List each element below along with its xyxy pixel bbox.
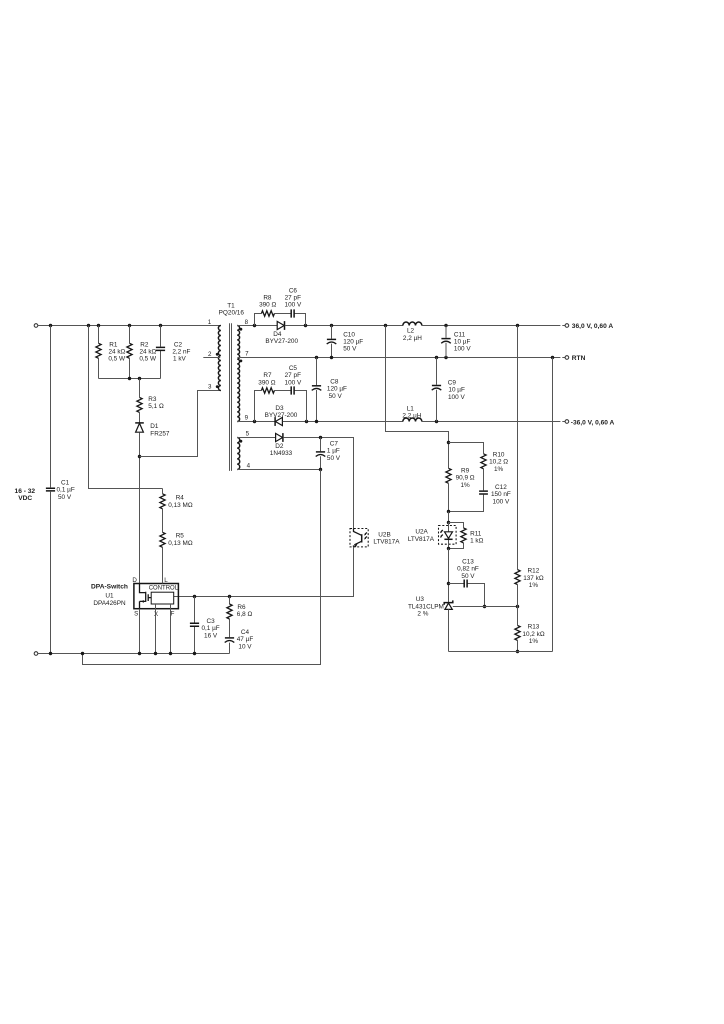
svg-text:50 V: 50 V xyxy=(327,455,341,462)
svg-text:10,2 Ω: 10,2 Ω xyxy=(489,459,508,466)
node top rail at C1 xyxy=(49,324,52,327)
svg-text:50 V: 50 V xyxy=(343,346,357,353)
node -36 at snubber right xyxy=(305,420,308,423)
output terminal -36 V xyxy=(565,419,614,426)
svg-text:0,1 µF: 0,1 µF xyxy=(201,625,219,632)
svg-text:9: 9 xyxy=(245,415,249,422)
resistor R12 xyxy=(515,568,544,590)
svg-text:2,2 µH: 2,2 µH xyxy=(402,412,421,419)
capacitor C11 xyxy=(441,326,471,358)
wire feedback return to RTN xyxy=(552,358,554,652)
diode D1 xyxy=(135,423,170,437)
svg-text:VDC: VDC xyxy=(18,495,32,502)
wire pin 8 to D4 xyxy=(237,325,277,327)
svg-text:3: 3 xyxy=(208,383,212,390)
capacitor C12 xyxy=(479,484,511,505)
svg-text:L2: L2 xyxy=(407,328,415,335)
transformer T1 bias winding (pins 5-4) xyxy=(237,438,240,470)
svg-text:R10: R10 xyxy=(493,451,505,458)
optocoupler U2B (photo-transistor) xyxy=(350,529,400,548)
svg-text:F: F xyxy=(171,611,175,618)
svg-text:50 V: 50 V xyxy=(58,494,72,501)
pin label 8 xyxy=(245,319,249,326)
svg-text:D3: D3 xyxy=(275,405,284,412)
svg-text:U1: U1 xyxy=(105,593,114,600)
svg-text:C5: C5 xyxy=(289,365,298,372)
svg-text:D1: D1 xyxy=(150,423,159,430)
svg-text:10 µF: 10 µF xyxy=(448,387,465,394)
diode D3 xyxy=(265,405,298,426)
node C line at R6 xyxy=(228,595,231,598)
svg-text:BYV27-200: BYV27-200 xyxy=(265,412,298,419)
pin label 5 xyxy=(246,431,250,438)
IC U1 DPA-Switch box xyxy=(134,584,179,609)
shunt regulator U3 TL431 xyxy=(408,596,453,651)
svg-text:0,82 nF: 0,82 nF xyxy=(457,566,479,573)
input terminal + (16-32 VDC) xyxy=(34,324,38,328)
svg-text:S: S xyxy=(134,610,138,617)
resistor R8 xyxy=(259,295,276,317)
resistor R3 xyxy=(137,379,164,423)
node clamp bottom at R2 xyxy=(128,377,131,380)
inductor L2 xyxy=(403,322,422,342)
capacitor C3 xyxy=(190,597,220,654)
svg-text:120 µF: 120 µF xyxy=(327,386,347,393)
capacitor C9 xyxy=(432,358,466,422)
svg-text:5: 5 xyxy=(246,431,250,438)
svg-text:36,0 V, 0,60 A: 36,0 V, 0,60 A xyxy=(572,323,614,330)
node C13 at ref line xyxy=(483,605,486,608)
wire +36 sense drop xyxy=(386,326,449,469)
resistor R1 xyxy=(96,326,126,379)
svg-text:0,1 µF: 0,1 µF xyxy=(57,487,75,494)
pin label X xyxy=(154,611,158,618)
svg-text:R3: R3 xyxy=(148,396,157,403)
svg-text:27 pF: 27 pF xyxy=(285,295,301,302)
wire pin 7 / RTN line xyxy=(237,357,565,359)
svg-text:DPA426PN: DPA426PN xyxy=(93,600,126,607)
svg-text:27 pF: 27 pF xyxy=(285,372,301,379)
svg-text:C12: C12 xyxy=(495,484,507,491)
node +36 at C10 xyxy=(330,324,333,327)
transformer T1 secondary winding (pins 8-7-9) xyxy=(237,326,239,422)
T1 secondary polarity dot (pin 7 section) xyxy=(240,360,243,363)
svg-text:R9: R9 xyxy=(461,467,470,474)
svg-text:10,2 kΩ: 10,2 kΩ xyxy=(522,631,544,638)
node RTN at feedback return xyxy=(551,356,554,359)
svg-text:1%: 1% xyxy=(494,466,504,473)
svg-text:50 V: 50 V xyxy=(329,393,343,400)
svg-text:10 V: 10 V xyxy=(238,644,252,651)
node drain / clamp junction xyxy=(138,455,141,458)
resistor R4 xyxy=(160,494,193,509)
svg-text:1N4933: 1N4933 xyxy=(270,450,293,457)
input terminal - (return) xyxy=(34,652,38,656)
wire D2 to U2B collector drop xyxy=(283,438,353,529)
svg-text:1%: 1% xyxy=(529,638,539,645)
svg-text:DPA-Switch: DPA-Switch xyxy=(91,584,128,591)
svg-text:D: D xyxy=(132,577,137,584)
svg-text:LTV817A: LTV817A xyxy=(373,539,400,546)
svg-text:D4: D4 xyxy=(273,331,282,338)
svg-text:100 V: 100 V xyxy=(493,498,510,505)
pin label 9 xyxy=(245,415,249,422)
node RTN at C11 xyxy=(444,356,447,359)
node top rail at C2 xyxy=(159,324,162,327)
resistor R5 xyxy=(160,532,193,547)
node RTN at C10 xyxy=(330,356,333,359)
svg-text:4: 4 xyxy=(247,463,251,470)
svg-text:TL431CLPM: TL431CLPM xyxy=(408,603,444,610)
svg-text:0,13 MΩ: 0,13 MΩ xyxy=(168,502,193,509)
svg-text:2: 2 xyxy=(208,351,212,358)
wire D3 to L1 xyxy=(283,421,403,423)
wire U2B emitter to U1 C pin xyxy=(174,547,354,597)
transformer T1 core xyxy=(230,323,232,471)
T1 bias polarity dot (pin 5) xyxy=(240,440,243,443)
node rail at F pin xyxy=(169,652,172,655)
pin label F xyxy=(171,611,175,618)
wire U1 L pin (R4/R5 chain) xyxy=(162,489,164,584)
wire bottom rail xyxy=(38,653,230,655)
node +36 at sense branch xyxy=(384,324,387,327)
wire D1 anode to drain node xyxy=(139,433,141,584)
svg-text:RTN: RTN xyxy=(572,355,586,362)
pin label 1 xyxy=(208,319,212,326)
node U2A anode / R11 top xyxy=(447,521,450,524)
svg-text:CONTROL: CONTROL xyxy=(149,586,179,592)
svg-text:0,13 MΩ: 0,13 MΩ xyxy=(168,540,193,547)
svg-text:C2: C2 xyxy=(174,341,183,348)
wire R12 branch from +36 xyxy=(517,326,519,607)
wire U1 X pin xyxy=(155,604,157,654)
svg-text:120 µF: 120 µF xyxy=(343,339,363,346)
wire snubber R8-C6 loop xyxy=(255,314,306,326)
output terminal +36 V xyxy=(565,323,613,330)
svg-text:1: 1 xyxy=(208,319,212,326)
svg-text:BYV27-200: BYV27-200 xyxy=(265,338,298,345)
svg-text:100 V: 100 V xyxy=(285,302,302,309)
node -36 at C8 xyxy=(315,420,318,423)
wire U3 ref line xyxy=(453,606,518,608)
svg-text:C9: C9 xyxy=(448,380,457,387)
svg-text:100 V: 100 V xyxy=(454,346,471,353)
node C line at C3 xyxy=(193,595,196,598)
wire top rail (+ input to transformer pin 1) xyxy=(38,325,221,327)
resistor R13 xyxy=(515,624,545,646)
wire D4 to L2 xyxy=(285,325,403,327)
svg-text:16 - 32: 16 - 32 xyxy=(15,488,36,495)
svg-text:150 nF: 150 nF xyxy=(491,491,511,498)
pin label 3 xyxy=(208,383,212,390)
node rail at bias return xyxy=(81,652,84,655)
svg-text:L: L xyxy=(164,577,168,584)
inductor L1 xyxy=(402,405,421,421)
svg-text:R6: R6 xyxy=(237,604,246,611)
svg-text:137 kΩ: 137 kΩ xyxy=(523,575,544,582)
svg-text:1 µF: 1 µF xyxy=(327,448,340,455)
wire bias return (pin 4 to bottom rail) xyxy=(83,470,321,665)
diode D2 xyxy=(270,433,293,457)
svg-text:10 µF: 10 µF xyxy=(454,339,471,346)
resistor R10 xyxy=(481,451,508,472)
svg-text:1 kΩ: 1 kΩ xyxy=(470,538,484,545)
svg-text:D2: D2 xyxy=(275,443,284,450)
svg-text:U2B: U2B xyxy=(378,531,390,538)
wire R9 to U2A xyxy=(448,512,450,523)
svg-text:C11: C11 xyxy=(454,332,466,339)
wire U1 F pin xyxy=(170,604,172,654)
node top rail at line-sense branch xyxy=(87,324,90,327)
node top rail at R1 xyxy=(97,324,100,327)
node rail at X pin xyxy=(154,652,157,655)
svg-text:0,5 W: 0,5 W xyxy=(139,355,157,362)
wire U1 S pin xyxy=(139,609,141,654)
svg-text:R12: R12 xyxy=(528,568,540,575)
node +36 at C11 xyxy=(444,324,447,327)
wire L1 to -36 terminal xyxy=(422,421,565,423)
wire feedback bottom rail xyxy=(449,651,553,653)
svg-text:24 kΩ: 24 kΩ xyxy=(139,348,156,355)
node C13 branch xyxy=(447,582,450,585)
resistor R9 xyxy=(446,467,475,511)
capacitor C6 xyxy=(285,287,302,317)
svg-text:16 V: 16 V xyxy=(204,632,218,639)
wire pin 4 line xyxy=(237,469,320,471)
svg-text:R1: R1 xyxy=(109,341,118,348)
wire R13 branch xyxy=(517,607,519,652)
svg-text:C6: C6 xyxy=(289,287,298,294)
resistor R6 xyxy=(227,597,253,638)
node pin 4 at C7 xyxy=(319,468,322,471)
wire L2 to +36 terminal xyxy=(422,325,565,327)
resistor R2 xyxy=(127,326,157,379)
pin label S xyxy=(134,610,138,617)
svg-text:R5: R5 xyxy=(176,533,185,540)
pin label D xyxy=(132,577,137,584)
node top rail at R2 xyxy=(128,324,131,327)
wire pin 9 to D3 xyxy=(237,421,275,423)
pin label 2 xyxy=(208,351,212,358)
U1 internal MOSFET xyxy=(140,584,152,609)
node rail at C1 xyxy=(49,652,52,655)
node ref at R12/R13 divider xyxy=(516,605,519,608)
pin label L xyxy=(164,577,168,584)
svg-text:100 V: 100 V xyxy=(448,394,465,401)
svg-text:2,2 nF: 2,2 nF xyxy=(172,348,190,355)
wire R10 branch xyxy=(449,443,484,512)
node rail at S pin xyxy=(138,652,141,655)
svg-text:-36,0 V, 0,60 A: -36,0 V, 0,60 A xyxy=(571,419,615,426)
svg-text:C4: C4 xyxy=(241,629,250,636)
svg-text:390 Ω: 390 Ω xyxy=(258,379,275,386)
svg-text:47 µF: 47 µF xyxy=(237,636,254,643)
node +36 at R12 branch xyxy=(516,324,519,327)
svg-text:100 V: 100 V xyxy=(285,379,302,386)
node bias at C7 xyxy=(319,436,322,439)
label 16-32 VDC xyxy=(15,488,36,502)
wire R11 loop xyxy=(449,523,464,549)
label U1 DPA-Switch xyxy=(91,584,128,608)
pin label 7 xyxy=(245,351,249,358)
node +36 at snubber right xyxy=(304,324,307,327)
capacitor C1 xyxy=(46,479,75,501)
svg-text:1 kV: 1 kV xyxy=(173,355,187,362)
wire U2A cathode to U3 cathode xyxy=(448,549,450,603)
svg-text:R8: R8 xyxy=(263,295,272,302)
capacitor C8 xyxy=(312,358,347,422)
optocoupler U2A (LED) xyxy=(408,523,456,549)
svg-text:R2: R2 xyxy=(140,341,149,348)
wire clamp bottom xyxy=(99,378,161,380)
node clamp bottom at R3 xyxy=(138,377,141,380)
capacitor C13 xyxy=(457,558,479,587)
pin label 4 xyxy=(247,463,251,470)
svg-text:X: X xyxy=(154,611,158,618)
svg-text:R4: R4 xyxy=(176,495,185,502)
svg-text:R13: R13 xyxy=(528,624,540,631)
svg-text:C10: C10 xyxy=(343,332,355,339)
svg-text:2 %: 2 % xyxy=(417,611,428,618)
node -36 at snubber left xyxy=(253,420,256,423)
resistor R7 xyxy=(258,372,275,393)
svg-text:0,5 W: 0,5 W xyxy=(108,355,126,362)
T1 secondary polarity dot (pin 8 section) xyxy=(240,328,243,331)
svg-text:7: 7 xyxy=(245,351,249,358)
svg-text:L1: L1 xyxy=(407,405,415,412)
resistor R11 xyxy=(461,528,484,545)
svg-text:PQ20/16: PQ20/16 xyxy=(219,309,245,316)
wire line-sense (top rail to R4) xyxy=(89,326,163,489)
capacitor C4 xyxy=(225,629,254,654)
node -36 at C9 xyxy=(435,420,438,423)
svg-text:1%: 1% xyxy=(460,482,470,489)
node U2A cathode / R11 bottom xyxy=(447,547,450,550)
svg-text:24 kΩ: 24 kΩ xyxy=(108,348,125,355)
T1 primary polarity dot (pin 3 section) xyxy=(216,385,219,388)
svg-text:C1: C1 xyxy=(61,479,70,486)
node rail at C3 xyxy=(193,652,196,655)
svg-text:C7: C7 xyxy=(330,440,339,447)
svg-text:6,8 Ω: 6,8 Ω xyxy=(237,611,253,618)
node R13 bottom xyxy=(516,650,519,653)
label T1 xyxy=(219,303,245,317)
wire T1 pin 2 stub xyxy=(203,357,220,359)
svg-text:U3: U3 xyxy=(416,596,425,603)
transformer T1 primary winding (pins 1-2-3) xyxy=(218,326,221,391)
capacitor C10 xyxy=(327,326,364,358)
capacitor C7 xyxy=(316,438,341,470)
svg-text:390 Ω: 390 Ω xyxy=(259,302,276,309)
svg-text:1%: 1% xyxy=(529,582,539,589)
wire drain to transformer pin 3 xyxy=(140,391,221,457)
node RTN at C9 xyxy=(435,356,438,359)
node RTN at C8 xyxy=(315,356,318,359)
svg-text:U2A: U2A xyxy=(415,529,428,536)
wire C1 branch xyxy=(50,326,52,654)
wire snubber R7-C5 loop xyxy=(255,391,307,422)
svg-text:C13: C13 xyxy=(462,558,474,565)
svg-text:LTV817A: LTV817A xyxy=(408,536,435,543)
node +36 at snubber left xyxy=(253,324,256,327)
T1 primary polarity dot (pin 2 section) xyxy=(216,353,219,356)
wire pin 5 to D2 xyxy=(237,437,275,439)
svg-text:8: 8 xyxy=(245,319,249,326)
capacitor C5 xyxy=(285,365,302,395)
svg-text:5,1 Ω: 5,1 Ω xyxy=(148,403,164,410)
svg-text:FR257: FR257 xyxy=(150,430,170,437)
diode D4 xyxy=(265,321,298,345)
svg-text:R7: R7 xyxy=(263,372,272,379)
svg-text:50 V: 50 V xyxy=(461,573,475,580)
svg-text:2,2 µH: 2,2 µH xyxy=(403,335,422,342)
wire C13 branch xyxy=(449,584,485,607)
svg-text:R11: R11 xyxy=(470,530,482,537)
svg-text:90,9 Ω: 90,9 Ω xyxy=(456,475,475,482)
node sense at R10 branch xyxy=(447,441,450,444)
output terminal RTN xyxy=(565,355,585,362)
svg-text:C3: C3 xyxy=(207,618,216,625)
capacitor C2 xyxy=(156,326,191,379)
node sense bottom junction xyxy=(447,510,450,513)
svg-text:C8: C8 xyxy=(330,379,339,386)
